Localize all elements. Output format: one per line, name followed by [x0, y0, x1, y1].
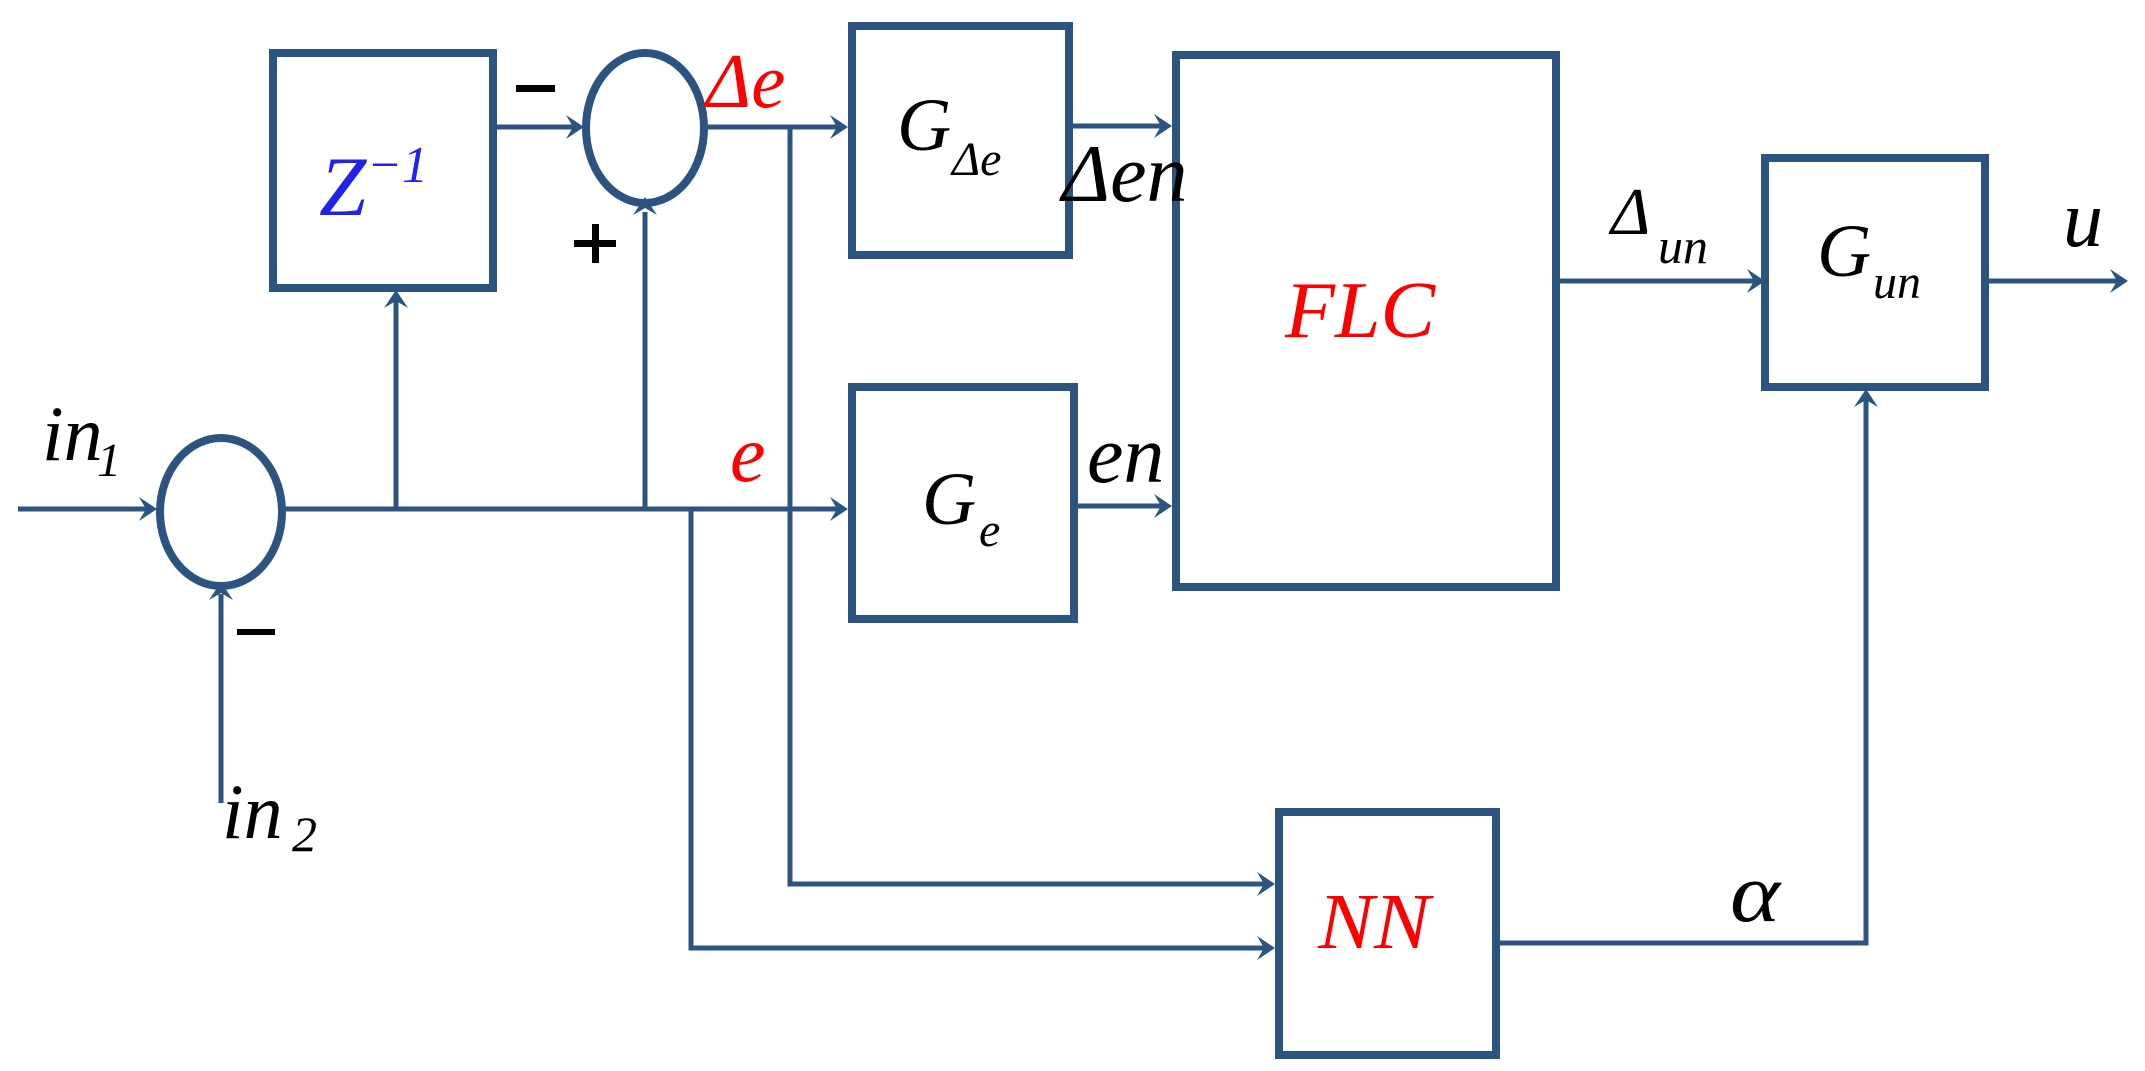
block Ge (gain G_e) — [852, 387, 1074, 619]
label minus at in2 — [237, 629, 275, 635]
svg-text:NN: NN — [1317, 879, 1435, 966]
svg-text:u: u — [2063, 176, 2103, 264]
block NN (neural network) — [1279, 812, 1496, 1055]
svg-text:−1: −1 — [367, 137, 428, 194]
svg-text:Z: Z — [319, 140, 367, 234]
svg-text:in: in — [222, 768, 283, 855]
svg-text:1: 1 — [97, 434, 121, 487]
wire Z1 to S2 — [497, 115, 584, 139]
wire Ge to FLC — [1074, 494, 1172, 518]
wire node to Z1 (vertical up) — [384, 290, 408, 509]
svg-text:en: en — [1087, 409, 1164, 500]
block GDe (gain G_Delta-e) — [852, 26, 1069, 255]
wire node to S2 (vertical up) — [633, 197, 657, 509]
wire delta-e (S2 to GDe) — [704, 115, 848, 139]
wire FLC to Gun — [1560, 269, 1765, 293]
block Gun (gain G_un) — [1765, 158, 1985, 387]
label plus at S2 — [574, 224, 616, 263]
svg-text:α: α — [1730, 847, 1782, 940]
svg-text:Δ: Δ — [1608, 175, 1650, 249]
wire branch delta-e to NN (upper input) — [790, 127, 1275, 896]
svg-text:Δen: Δen — [1059, 128, 1188, 219]
summing junction S2 (delta-e comparator) — [586, 53, 704, 203]
block Z1 (unit delay Z^-1) — [273, 53, 493, 288]
svg-text:e: e — [730, 411, 766, 499]
svg-text:G: G — [1817, 210, 1871, 293]
svg-text:Δe: Δe — [950, 133, 1001, 186]
wire in1 to S1 — [18, 497, 157, 521]
svg-text:FLC: FLC — [1284, 267, 1437, 355]
svg-text:2: 2 — [292, 806, 317, 862]
label delta-un — [1608, 175, 1708, 274]
summing junction S1 (input comparator) — [160, 438, 282, 586]
wire in2 to S1 — [209, 582, 233, 803]
label in1 — [42, 390, 121, 487]
svg-text:G: G — [922, 458, 976, 541]
label in2 — [222, 768, 317, 862]
wire alpha (NN to Gun) — [1496, 389, 1878, 943]
svg-text:e: e — [979, 504, 1000, 557]
svg-text:un: un — [1873, 256, 1921, 309]
wire Gun output u — [1985, 269, 2128, 293]
wire branch e to NN (lower input) — [691, 509, 1275, 960]
svg-text:Δe: Δe — [703, 38, 785, 124]
svg-text:in: in — [42, 390, 103, 477]
wire e (S1 to Ge) — [282, 497, 848, 521]
label minus at S2 — [516, 85, 555, 92]
block FLC (fuzzy logic controller) — [1176, 55, 1556, 587]
wire GDe to FLC — [1069, 114, 1172, 138]
svg-text:un: un — [1658, 218, 1708, 274]
svg-text:G: G — [897, 84, 951, 167]
